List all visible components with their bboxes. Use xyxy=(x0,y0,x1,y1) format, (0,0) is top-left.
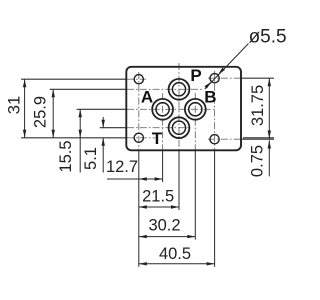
svg-text:B: B xyxy=(204,88,216,107)
svg-text:40.5: 40.5 xyxy=(159,245,191,263)
svg-text:A: A xyxy=(141,88,153,107)
svg-text:12.7: 12.7 xyxy=(106,158,138,176)
svg-text:0.75: 0.75 xyxy=(249,145,267,177)
svg-text:25.9: 25.9 xyxy=(32,96,50,128)
svg-text:ø5.5: ø5.5 xyxy=(249,27,287,48)
svg-text:31: 31 xyxy=(6,96,24,114)
svg-text:15.5: 15.5 xyxy=(57,140,75,172)
svg-text:T: T xyxy=(152,129,163,148)
svg-text:21.5: 21.5 xyxy=(142,188,174,206)
svg-text:P: P xyxy=(190,66,201,85)
svg-text:31.75: 31.75 xyxy=(249,85,267,126)
svg-text:5.1: 5.1 xyxy=(82,147,100,170)
svg-text:30.2: 30.2 xyxy=(148,217,180,235)
